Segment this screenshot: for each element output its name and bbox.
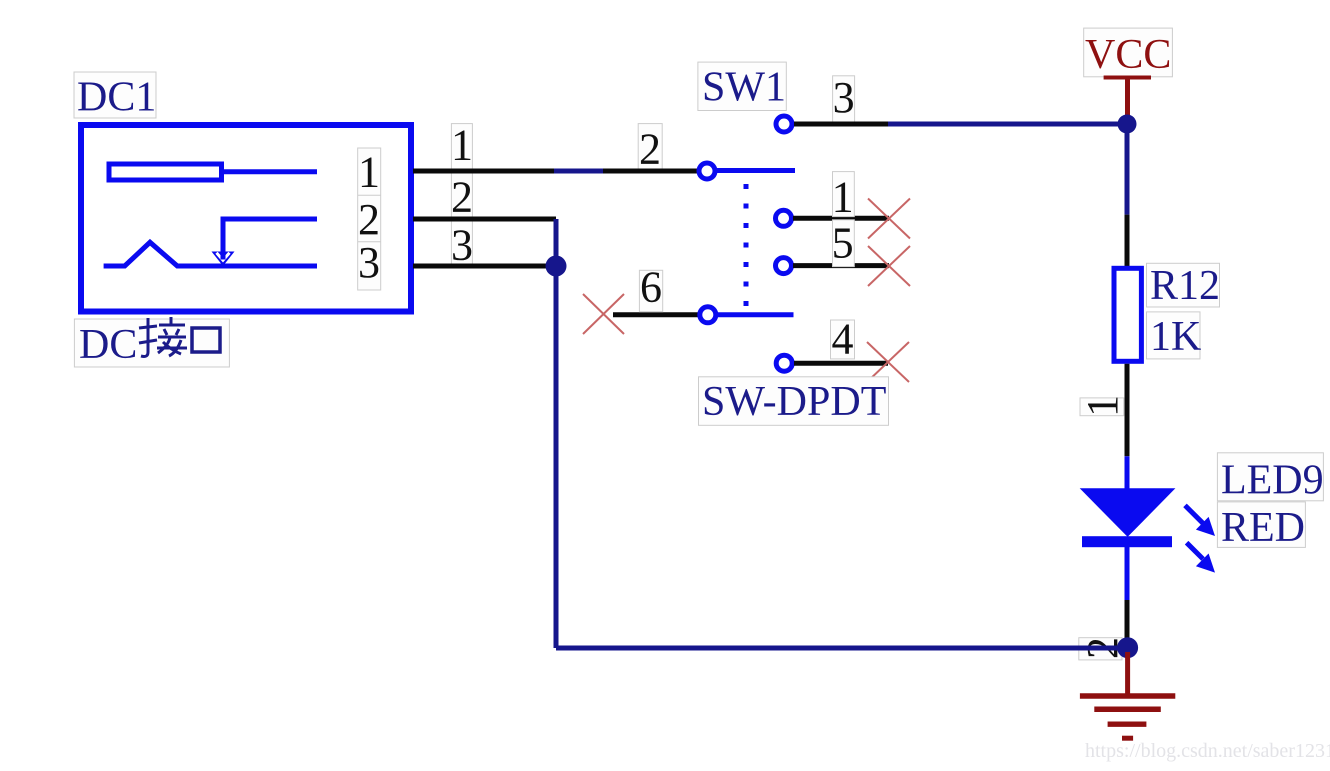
pin label 1 rotated bbox=[1078, 395, 1127, 417]
svg-text:https://blog.csdn.net/saber123: https://blog.csdn.net/saber123111 bbox=[1085, 740, 1330, 762]
label 1K bbox=[1147, 312, 1202, 360]
svg-text:DC: DC bbox=[79, 322, 137, 368]
ground bar 2 bbox=[1094, 706, 1161, 712]
wire pin5 black bbox=[793, 263, 889, 268]
no-connect X pin6 bbox=[583, 294, 624, 334]
svg-text:VCC: VCC bbox=[1085, 32, 1171, 78]
label 6 pin bbox=[639, 262, 662, 311]
label 5 pin bbox=[832, 219, 855, 268]
switch SW1 pin4 contact bbox=[776, 355, 792, 371]
svg-text:2: 2 bbox=[639, 124, 661, 173]
svg-text:RED: RED bbox=[1221, 505, 1305, 551]
DC1 internal pin2 line with arrow bbox=[212, 219, 318, 266]
wire bottom horizontal navy bbox=[556, 646, 1127, 651]
wire DC1 pin1 to SW pole (black) bbox=[413, 169, 554, 174]
pin label 2 rotated bbox=[1078, 637, 1127, 660]
wire pin3 navy to VCC node bbox=[888, 122, 1127, 127]
label LED9 bbox=[1217, 453, 1323, 504]
wire VCC down navy bbox=[1125, 124, 1130, 215]
hanzi 口 bbox=[192, 328, 220, 352]
label DC1 bbox=[74, 72, 156, 121]
hanzi 接 bbox=[139, 317, 187, 357]
switch SW1 pole 1 contact bbox=[699, 163, 715, 179]
wire pin1 black bbox=[793, 216, 889, 221]
wire DC1 pin2 (black) bbox=[413, 217, 556, 222]
wire pin6 black bbox=[613, 312, 699, 317]
junction node pin2/pin3 bbox=[546, 256, 567, 277]
wire DC1 pin3 (black) bbox=[413, 264, 550, 269]
no-connect X pin4 bbox=[867, 342, 909, 382]
LED emission arrow 1 bbox=[1185, 505, 1215, 536]
no-connect X pin1 bbox=[868, 199, 910, 239]
junction node LED cathode bbox=[1117, 637, 1138, 658]
junction node VCC bbox=[1118, 115, 1137, 134]
LED emission arrow 2 bbox=[1187, 543, 1215, 573]
switch SW1 pole 1 lever bbox=[716, 168, 795, 173]
LED LED9 cathode lead blue bbox=[1125, 547, 1130, 600]
svg-text:R12: R12 bbox=[1150, 263, 1220, 309]
LED LED9 cathode bar bbox=[1082, 536, 1172, 547]
switch SW1 pin1 contact bbox=[776, 210, 792, 226]
DC1 internal pin3 line with bump bbox=[104, 242, 317, 266]
svg-text:6: 6 bbox=[640, 262, 662, 311]
connector DC1 body bbox=[81, 125, 411, 312]
power flag VCC label bbox=[1084, 28, 1173, 78]
svg-text:4: 4 bbox=[832, 315, 854, 364]
switch SW1 pin5 contact bbox=[776, 258, 792, 274]
svg-text:1: 1 bbox=[451, 121, 473, 170]
wire LED to junction black bbox=[1125, 600, 1130, 640]
svg-text:SW-DPDT: SW-DPDT bbox=[702, 379, 886, 425]
svg-text:1: 1 bbox=[832, 172, 854, 221]
svg-text:SW1: SW1 bbox=[702, 65, 786, 111]
svg-text:1: 1 bbox=[1078, 395, 1127, 417]
wire black to resistor bbox=[1125, 215, 1130, 266]
label 2 on wire bbox=[638, 124, 662, 174]
ground bar 3 bbox=[1108, 722, 1147, 727]
svg-text:3: 3 bbox=[358, 238, 380, 287]
svg-text:2: 2 bbox=[451, 172, 473, 221]
label 1 pin bbox=[832, 172, 855, 222]
svg-text:5: 5 bbox=[832, 219, 854, 268]
ground bar 1 bbox=[1080, 693, 1175, 699]
svg-text:1: 1 bbox=[358, 148, 380, 197]
wire segment navy on pin1 net bbox=[554, 169, 603, 174]
switch SW1 pin3 contact bbox=[776, 116, 792, 132]
label 3 pin bbox=[833, 73, 855, 123]
LED LED9 anode lead blue bbox=[1125, 456, 1130, 490]
svg-text:1K: 1K bbox=[1150, 314, 1201, 360]
no-connect X pin5 bbox=[868, 246, 910, 286]
svg-text:3: 3 bbox=[833, 73, 855, 122]
wire resistor to LED black bbox=[1125, 364, 1130, 457]
ground stem dark red bbox=[1125, 652, 1130, 696]
svg-text:LED9: LED9 bbox=[1221, 458, 1324, 504]
switch SW1 pole 2 contact bbox=[700, 307, 716, 323]
wire pin3 black bbox=[794, 122, 888, 127]
switch dotted link line bbox=[744, 184, 749, 306]
ground bar 4 bbox=[1122, 736, 1133, 741]
label R12 bbox=[1147, 263, 1221, 309]
wire vertical navy from pin2 down bbox=[554, 219, 559, 648]
label 4 pin bbox=[831, 315, 855, 364]
DC1 inner pin number column bbox=[358, 148, 381, 290]
svg-text:DC1: DC1 bbox=[77, 75, 156, 121]
label DC接口 bbox=[74, 319, 229, 368]
DC1 internal pin1 barrel symbol bbox=[109, 164, 317, 180]
svg-text:3: 3 bbox=[451, 221, 473, 270]
power flag VCC stem bbox=[1125, 78, 1130, 123]
wire pin4 black bbox=[794, 361, 888, 366]
LED LED9 triangle bbox=[1080, 488, 1176, 537]
svg-text:2: 2 bbox=[358, 195, 380, 244]
switch SW1 pole 2 lever bbox=[717, 312, 794, 317]
label SW1 bbox=[698, 62, 786, 110]
DC1 outer pin label column bbox=[451, 124, 472, 267]
resistor R12 body bbox=[1114, 268, 1141, 361]
label RED bbox=[1217, 502, 1305, 551]
label SW-DPDT bbox=[699, 377, 889, 426]
power flag VCC bar bbox=[1104, 76, 1151, 80]
wire black to SW pole circle bbox=[603, 169, 699, 174]
